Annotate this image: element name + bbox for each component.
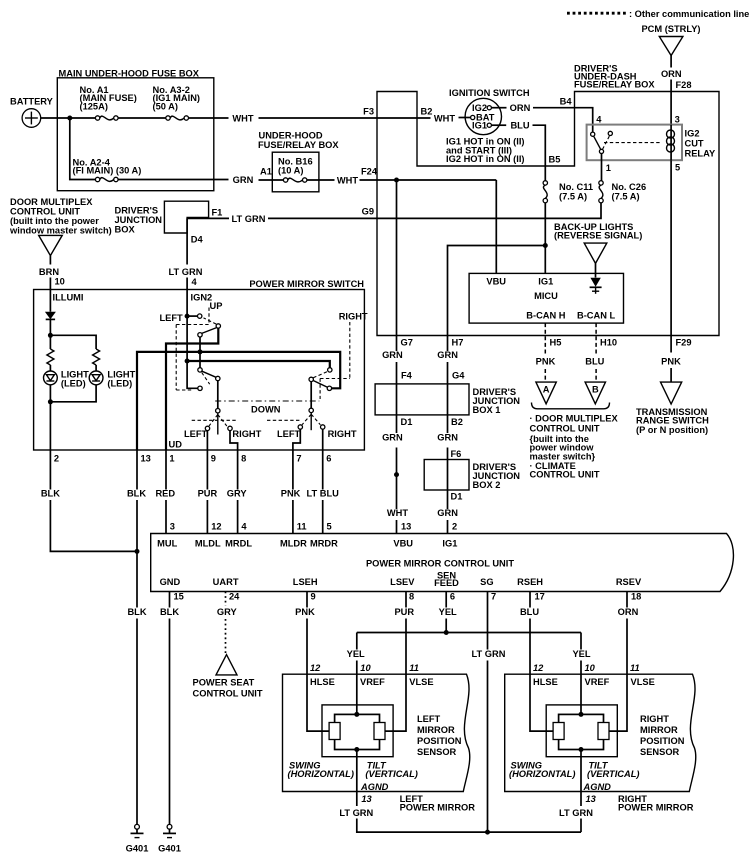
svg-text:B4: B4: [560, 97, 573, 107]
svg-text:G7: G7: [401, 337, 413, 347]
svg-text:10: 10: [585, 663, 596, 673]
mechanical dashed selector line left: [192, 419, 237, 421]
connector transmission range switch triangle: [661, 382, 682, 404]
svg-text:F6: F6: [451, 449, 462, 459]
wire PNK continue: [292, 500, 294, 534]
wire PUR continue: [206, 500, 208, 534]
wire YEL to left VREF: [356, 661, 358, 715]
svg-text:H7: H7: [452, 337, 464, 347]
svg-text:LT GRN: LT GRN: [559, 808, 593, 818]
wire branch down to fuse A2-4: [70, 118, 96, 180]
relay common terminal: [599, 149, 603, 153]
wire YEL branch horizontal: [357, 632, 581, 634]
wire GND BLK to ground: [169, 619, 171, 825]
svg-text:6: 6: [450, 592, 455, 602]
lever right selector dashed arms: [302, 414, 311, 425]
svg-text:FEED: FEED: [434, 578, 459, 588]
wire right selector LEFT to pin 7: [293, 429, 300, 450]
ground G401 left: [135, 824, 140, 829]
svg-text:MRDL: MRDL: [225, 538, 252, 548]
box under-hood fuse/relay box: [272, 152, 319, 192]
svg-text:VLSE: VLSE: [631, 677, 655, 687]
wire SG down: [487, 592, 489, 650]
right switch group: terminal upper fed by H2: [328, 368, 332, 372]
node IGN2 to UP contact junction: [185, 314, 190, 319]
wire GRN down to WHT to VBU pin 13: [396, 448, 398, 510]
svg-text:G4: G4: [452, 371, 465, 381]
svg-text:D1: D1: [451, 491, 463, 501]
svg-text:MLDL: MLDL: [195, 538, 221, 548]
svg-text:(REVERSE SIGNAL): (REVERSE SIGNAL): [554, 231, 642, 241]
wire RSEH BLU down: [529, 592, 531, 608]
svg-text:RSEV: RSEV: [616, 577, 642, 587]
relay NC terminal: [608, 131, 612, 135]
svg-text:GND: GND: [160, 577, 181, 587]
svg-text:CONTROL UNIT: CONTROL UNIT: [10, 207, 80, 217]
switch lever left down alternate dashed: [202, 373, 210, 385]
resistor LED1: [47, 349, 54, 365]
svg-text:IG1: IG1: [538, 276, 553, 286]
diode illumination: [45, 312, 56, 320]
wire UART dotted continue: [225, 619, 227, 654]
terminal left down lower fed by IGN2: [198, 386, 202, 390]
wire BRN continue into switch: [49, 278, 51, 312]
wire YEL to branch: [445, 619, 447, 633]
svg-text:POSITION: POSITION: [417, 736, 462, 746]
wire B2 GRN down: [447, 415, 449, 433]
box driver's under-dash fuse/relay box outline with ignition notch: [377, 92, 719, 336]
svg-text:4: 4: [192, 277, 198, 287]
terminal right selector RIGHT: [321, 425, 325, 429]
svg-text:IG2 HOT in ON (II): IG2 HOT in ON (II): [446, 154, 525, 164]
wire dashed B-CAN L to H10: [595, 323, 597, 353]
svg-text:CUT: CUT: [685, 139, 704, 149]
terminal UP common: [216, 324, 220, 328]
svg-text:LT GRN: LT GRN: [339, 808, 373, 818]
wire ORN from PCM down to F28: [670, 56, 672, 68]
svg-text:POSITION: POSITION: [640, 736, 685, 746]
svg-text:(50 A): (50 A): [153, 101, 179, 111]
svg-text:PNK: PNK: [295, 607, 315, 617]
svg-text:9: 9: [311, 592, 316, 602]
svg-text:GRN: GRN: [233, 175, 254, 185]
svg-text:B2: B2: [451, 417, 463, 427]
svg-text:11: 11: [297, 522, 307, 532]
svg-text:13: 13: [401, 522, 411, 532]
svg-text:WHT: WHT: [387, 508, 408, 518]
switch lever UP: [202, 328, 217, 334]
svg-text:ORN: ORN: [618, 607, 639, 617]
box driver's junction box 1: [375, 384, 469, 415]
node H1 junction: [198, 349, 203, 354]
svg-text:BLK: BLK: [41, 488, 60, 498]
svg-text:MIRROR: MIRROR: [640, 725, 678, 735]
svg-text:RIGHT: RIGHT: [339, 312, 368, 322]
svg-text:H5: H5: [550, 337, 562, 347]
svg-text:6: 6: [326, 454, 331, 464]
svg-text:G401: G401: [158, 844, 181, 854]
svg-text:(HORIZONTAL): (HORIZONTAL): [509, 769, 575, 779]
box MICU: [469, 273, 623, 323]
svg-text:BOX 2: BOX 2: [473, 480, 501, 490]
wire LT BLU pin 6 to MRDR: [322, 450, 324, 490]
svg-text:IG1: IG1: [442, 538, 457, 548]
svg-text:8: 8: [409, 592, 414, 602]
wire ORN to relay pin 4: [533, 108, 593, 132]
brace under triangles: [532, 403, 610, 409]
svg-text:(FI MAIN) (30 A): (FI MAIN) (30 A): [73, 166, 142, 176]
switch lever left down: [202, 371, 216, 377]
svg-text:MAIN UNDER-HOOD FUSE BOX: MAIN UNDER-HOOD FUSE BOX: [59, 69, 200, 79]
svg-text:POWER MIRROR SWITCH: POWER MIRROR SWITCH: [249, 279, 364, 289]
svg-text:13: 13: [361, 794, 372, 804]
wire GRY pin 8 to MRDL: [237, 450, 239, 490]
svg-text:IG2: IG2: [472, 103, 487, 113]
wire WHT to BAT terminal: [459, 117, 471, 119]
svg-text:SENSOR: SENSOR: [417, 747, 457, 757]
svg-text:11: 11: [409, 663, 419, 673]
svg-text:F3: F3: [363, 107, 374, 117]
wire F4-D1 through box: [396, 384, 398, 415]
wire right AGND to rail: [580, 819, 582, 833]
box driver's junction box with notch: [164, 201, 208, 233]
svg-text:ORN: ORN: [510, 103, 531, 113]
svg-text:DRIVER'S: DRIVER'S: [115, 206, 159, 216]
wire dashed BLU to triangle B: [595, 369, 597, 382]
svg-text:LT GRN: LT GRN: [169, 267, 203, 277]
svg-text:11: 11: [630, 663, 640, 673]
wire RED pin 1 to MUL: [165, 450, 167, 490]
wire fuse C11 down to MICU IG1: [544, 203, 546, 274]
svg-text:WHT: WHT: [232, 114, 253, 124]
wire H1 junction down to left down contact: [199, 352, 201, 368]
right sensor wire loop: [559, 714, 604, 749]
wire GRN to junction box 2 F6: [447, 448, 449, 460]
wire ORN continue into fuse/relay box: [670, 80, 672, 125]
lever right selector: [310, 413, 312, 431]
box main under-hood fuse box: [57, 78, 214, 191]
svg-text:7: 7: [491, 592, 496, 602]
svg-text:PUR: PUR: [394, 607, 414, 617]
svg-text:POWER MIRROR CONTROL UNIT: POWER MIRROR CONTROL UNIT: [366, 558, 514, 568]
fuse A1: [95, 116, 99, 120]
connector triangle B: [585, 382, 605, 404]
svg-text:3: 3: [675, 114, 680, 124]
node battery junction: [67, 116, 72, 121]
svg-text:5: 5: [327, 522, 332, 532]
svg-text:(LED): (LED): [61, 379, 86, 389]
svg-text:12: 12: [211, 522, 221, 532]
terminal right lower fed by H1: [327, 386, 331, 390]
svg-text:F28: F28: [676, 80, 692, 90]
svg-text:3: 3: [170, 522, 175, 532]
wire left common down to selector: [217, 381, 219, 409]
terminal IG1: [487, 123, 491, 127]
wire PUR pin 9 to MLDL: [206, 450, 208, 490]
svg-text:(HORIZONTAL): (HORIZONTAL): [288, 769, 354, 779]
svg-text:LSEV: LSEV: [390, 577, 415, 587]
svg-text:MLDR: MLDR: [280, 538, 307, 548]
svg-text:FUSE/RELAY BOX: FUSE/RELAY BOX: [574, 80, 655, 90]
wire RSEV ORN down: [626, 592, 628, 608]
svg-text:H10: H10: [600, 337, 617, 347]
svg-text:4: 4: [241, 522, 247, 532]
svg-text:LT BLU: LT BLU: [307, 488, 340, 498]
battery symbol: [22, 109, 41, 128]
svg-text:POWER MIRROR: POWER MIRROR: [618, 802, 694, 812]
wire RED continue: [165, 500, 167, 534]
svg-text:D4: D4: [191, 235, 204, 245]
node left AGND bottom junction: [354, 747, 359, 752]
box left power mirror outline with torn right edge: [283, 674, 470, 791]
wire diode to LED branch: [49, 319, 51, 349]
box right power mirror outline with torn right edge: [505, 674, 696, 791]
resistor right sensor swing: [553, 723, 564, 740]
svg-text:: Other communication line: : Other communication line: [629, 9, 749, 19]
wire to LED1: [49, 365, 51, 371]
svg-text:POWER SEAT: POWER SEAT: [193, 678, 255, 688]
wire branch to H7: [448, 246, 546, 336]
node BLK junction: [135, 549, 140, 554]
wire selector RIGHT to pin 8: [230, 431, 238, 450]
wire relay pin1 down to fuse C26: [601, 154, 603, 181]
svg-text:(VERTICAL): (VERTICAL): [587, 769, 640, 779]
svg-text:ORN: ORN: [661, 69, 682, 79]
svg-text:LEFT: LEFT: [417, 714, 441, 724]
wire PNK to transmission range switch: [670, 336, 672, 353]
wire GRY continue: [237, 500, 239, 534]
relay actuation dashed line: [604, 142, 662, 144]
wire LED1 down: [49, 385, 51, 450]
svg-text:SENSOR: SENSOR: [640, 747, 680, 757]
svg-text:LEFT: LEFT: [184, 429, 208, 439]
wire to UP feed contact: [187, 315, 197, 317]
relay pin 4 terminal: [591, 132, 595, 136]
svg-text:B: B: [592, 385, 599, 395]
wire PNK continue: [670, 368, 672, 382]
svg-text:13: 13: [141, 454, 151, 464]
terminal right pivot: [309, 377, 313, 381]
svg-text:5: 5: [675, 163, 680, 173]
svg-text:AGND: AGND: [583, 782, 612, 792]
relay lever: [594, 136, 601, 150]
svg-text:LT GRN: LT GRN: [472, 649, 506, 659]
svg-text:VBU: VBU: [486, 276, 506, 286]
terminal right selector LEFT: [298, 425, 302, 429]
box left sensor inner: [322, 705, 393, 757]
terminal left selector LEFT: [205, 426, 209, 430]
svg-text:RED: RED: [155, 488, 175, 498]
wire G7 GRN down: [396, 336, 398, 352]
wire from back-up triangle to MICU diode: [595, 263, 597, 277]
terminal left down common: [216, 376, 220, 380]
switch lever UP alternate dashed: [204, 318, 217, 324]
svg-text:AGND: AGND: [360, 782, 389, 792]
wire BLU to fuse C11: [533, 125, 546, 181]
fuse C11: [543, 181, 547, 185]
mechanical dash-dot DOWN line: [215, 400, 319, 402]
wire branch down to G7: [396, 180, 398, 336]
svg-text:PNK: PNK: [281, 488, 301, 498]
node IGN2 H2 junction: [185, 359, 190, 364]
svg-text:VBU: VBU: [393, 538, 413, 548]
wire coil vertical through relay: [670, 125, 672, 161]
wire BLK pin 13 down: [136, 450, 138, 490]
connector triangle A: [536, 382, 556, 404]
node LED top junction: [48, 333, 53, 338]
svg-text:PNK: PNK: [661, 356, 681, 366]
lever right solid: [313, 381, 327, 388]
svg-text:17: 17: [535, 592, 545, 602]
wire branch to second LED: [50, 335, 96, 349]
svg-text:GRN: GRN: [382, 350, 403, 360]
terminal UP lower: [198, 333, 202, 337]
wire dashed B-CAN H to H5: [544, 323, 546, 353]
wire BLU to right HLSE pin 12: [530, 619, 553, 732]
svg-text:24: 24: [229, 592, 240, 602]
svg-text:D1: D1: [401, 417, 413, 427]
fuse C26: [599, 181, 603, 185]
svg-text:VREF: VREF: [585, 677, 610, 687]
svg-text:IG2: IG2: [685, 129, 700, 139]
svg-text:12: 12: [533, 663, 544, 673]
node right VREF top junction: [579, 712, 584, 717]
fuse A3-2: [166, 116, 170, 120]
svg-text:UP: UP: [210, 301, 223, 311]
wire D1 GRN down: [396, 415, 398, 433]
node left VREF top junction: [354, 712, 359, 717]
lever left selector dashed arms: [209, 415, 218, 427]
svg-text:PUR: PUR: [198, 488, 218, 498]
svg-text:IGNITION SWITCH: IGNITION SWITCH: [449, 88, 530, 98]
svg-text:FUSE/RELAY BOX: FUSE/RELAY BOX: [258, 140, 339, 150]
svg-text:YEL: YEL: [572, 649, 590, 659]
svg-text:RIGHT: RIGHT: [328, 429, 357, 439]
wire BLK combined to ground: [136, 619, 138, 825]
svg-text:2: 2: [452, 522, 457, 532]
wire relay pin5 down to F29: [670, 160, 672, 335]
wire GRN to control unit: [447, 520, 449, 534]
svg-text:13: 13: [586, 794, 597, 804]
svg-text:GRN: GRN: [437, 350, 458, 360]
svg-text:POWER MIRROR: POWER MIRROR: [400, 802, 476, 812]
resistor left sensor swing: [329, 723, 340, 740]
svg-text:G401: G401: [126, 844, 149, 854]
wire LT GRN from F1 to G9: [187, 217, 229, 219]
wire BRN down to pin 10: [49, 256, 51, 265]
svg-text:JUNCTION: JUNCTION: [115, 215, 163, 225]
svg-text:LEFT: LEFT: [277, 429, 301, 439]
svg-text:B-CAN H: B-CAN H: [526, 310, 566, 320]
svg-text:LEFT: LEFT: [160, 313, 184, 323]
wire H7 GRN down: [447, 336, 449, 352]
wire YEL left branch down: [356, 633, 358, 650]
ignition switch circle: [465, 98, 501, 134]
wire left AGND to rail: [357, 819, 581, 833]
wire WHT to control unit: [396, 520, 398, 534]
wire fuse A1 to fuse A3-2: [118, 117, 166, 119]
svg-text:2: 2: [54, 454, 59, 464]
wire D4 down from junction box: [186, 218, 188, 264]
wire YEL right branch down: [580, 633, 582, 650]
fuse A2-4: [95, 177, 99, 181]
wire to LED2: [95, 365, 97, 371]
svg-text:LT GRN: LT GRN: [232, 214, 266, 224]
terminal BAT: [471, 115, 475, 119]
svg-text:(7.5 A): (7.5 A): [612, 192, 640, 202]
mechanical dashed link left column: [175, 325, 177, 391]
wire ORN to right VLSE pin 11: [609, 619, 627, 732]
wire BLK pin 2 down: [49, 450, 51, 490]
connector PCM triangle: [659, 37, 683, 56]
resistor right sensor tilt: [598, 723, 609, 740]
wire battery to fuse A1: [41, 117, 96, 119]
wire LT GRN continue to G9 and on to fuse C26 bottom: [268, 203, 601, 219]
svg-text:A1: A1: [260, 167, 272, 177]
svg-text:RSEH: RSEH: [517, 577, 543, 587]
relay IG2 cut relay box: [587, 125, 682, 161]
svg-text:10: 10: [55, 277, 65, 287]
svg-text:RIGHT: RIGHT: [640, 714, 669, 724]
svg-text:RELAY: RELAY: [685, 149, 716, 159]
wire PUR to VLSE pin 11: [385, 619, 406, 732]
svg-text:BOX: BOX: [115, 225, 136, 235]
svg-text:12: 12: [310, 663, 321, 673]
wire WHT from fuse box to F3: [189, 117, 229, 119]
svg-text:PNK: PNK: [536, 356, 556, 366]
node LED bottom junction: [48, 399, 53, 404]
svg-text:(7.5 A): (7.5 A): [559, 192, 587, 202]
svg-text:(built into the power: (built into the power: [10, 216, 99, 226]
svg-text:B2: B2: [421, 107, 433, 117]
mechanical dashed selector line right: [267, 419, 301, 421]
box driver's junction box 2: [424, 460, 469, 491]
wire PNK to HLSE pin 12: [307, 619, 329, 732]
svg-text:15: 15: [174, 592, 184, 602]
svg-text:YEL: YEL: [439, 607, 457, 617]
svg-text:7: 7: [296, 454, 301, 464]
wire G4-B2 through box: [447, 384, 449, 415]
wire F6-D1 through box 2: [447, 460, 449, 491]
svg-text:(10 A): (10 A): [278, 166, 304, 176]
svg-text:BLU: BLU: [585, 356, 604, 366]
svg-text:WHT: WHT: [434, 114, 455, 124]
svg-text:GRY: GRY: [227, 488, 248, 498]
node IG1 branch junction: [543, 243, 548, 248]
svg-text:F4: F4: [401, 371, 413, 381]
connector door multiplex triangle: [39, 235, 63, 255]
terminal left selector pivot: [216, 409, 220, 413]
legend: other communication line dotted sample: [567, 12, 627, 15]
svg-text:DOWN: DOWN: [251, 405, 281, 415]
node YEL branch junction: [444, 630, 449, 635]
svg-text:MRDR: MRDR: [310, 538, 338, 548]
diode inside MICU: [590, 278, 600, 287]
svg-text:MIRROR: MIRROR: [417, 725, 455, 735]
svg-text:PCM (STRLY): PCM (STRLY): [641, 24, 700, 34]
svg-text:BLU: BLU: [510, 121, 529, 131]
svg-text:window master switch): window master switch): [9, 226, 112, 236]
wire IG1 to BLU: [491, 124, 506, 126]
svg-text:BATTERY: BATTERY: [10, 97, 54, 107]
node F24 branch junction: [394, 178, 399, 183]
svg-text:A: A: [543, 385, 550, 395]
wire BLK pin 2 jog to pin13 wire: [50, 500, 137, 551]
wire dashed PNK to triangle A: [544, 369, 546, 382]
svg-text:B-CAN L: B-CAN L: [577, 310, 616, 320]
node right AGND bottom junction: [579, 747, 584, 752]
terminal IG2: [487, 106, 491, 110]
